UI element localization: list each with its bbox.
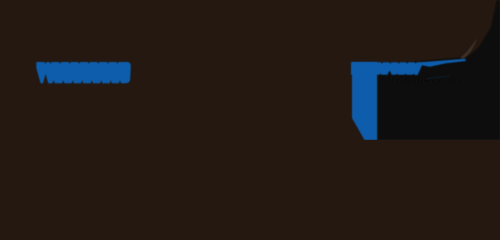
ghost streak under swoosh <box>426 75 450 79</box>
right small blue wordmark band with swoosh <box>351 59 466 75</box>
background base <box>0 0 500 140</box>
blue vertical bar <box>352 62 377 140</box>
left logo blue wordmark blob <box>36 62 131 83</box>
light wisp highlight <box>460 38 477 59</box>
black corner region <box>378 0 500 140</box>
svg-text:Performance line: Performance line <box>386 76 468 87</box>
